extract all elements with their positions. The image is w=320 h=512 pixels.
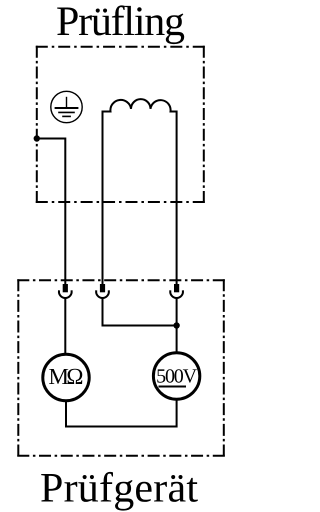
svg-text:MΩ: MΩ <box>49 364 84 389</box>
svg-text:Prüfling: Prüfling <box>56 0 185 45</box>
svg-text:500V: 500V <box>156 365 198 387</box>
svg-text:Prüfgerät: Prüfgerät <box>40 466 198 512</box>
